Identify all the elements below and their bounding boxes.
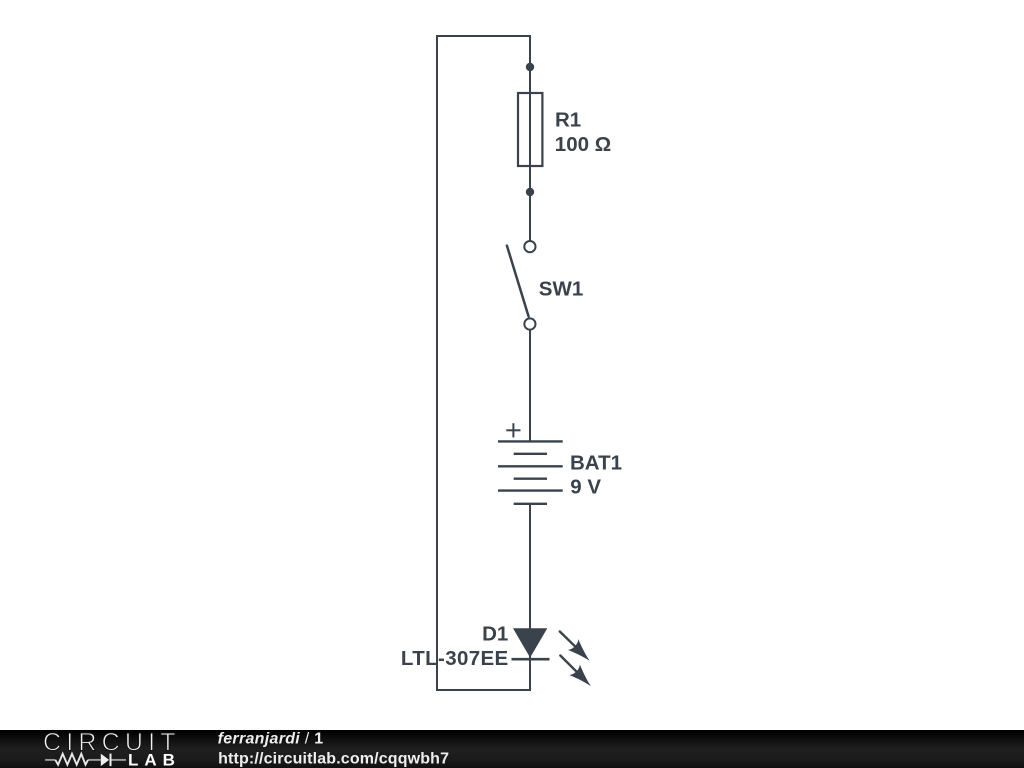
svg-text:LTL-307EE: LTL-307EE: [401, 647, 509, 670]
svg-text:http://circuitlab.com/cqqwbh7: http://circuitlab.com/cqqwbh7: [218, 750, 449, 767]
svg-text:LAB: LAB: [128, 750, 181, 768]
svg-text:R1: R1: [555, 109, 581, 132]
svg-text:BAT1: BAT1: [570, 451, 622, 474]
svg-text:9 V: 9 V: [570, 475, 601, 498]
svg-text:ferranjardi / 1: ferranjardi / 1: [218, 731, 324, 748]
svg-text:SW1: SW1: [539, 277, 583, 300]
svg-text:100 Ω: 100 Ω: [555, 133, 611, 156]
svg-text:D1: D1: [482, 623, 508, 646]
